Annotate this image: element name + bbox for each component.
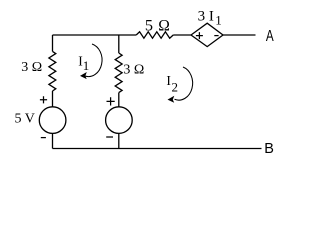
wire middle source to bottom rail <box>118 133 120 148</box>
mesh current I1 arc arrow <box>85 44 102 77</box>
resistor 3Ω middle (vertical zigzag) <box>115 53 122 93</box>
mesh current I2 arc arrow <box>175 67 193 100</box>
resistor 5Ω (horizontal zigzag) <box>136 32 173 38</box>
wire left branch vertical top <box>52 35 54 51</box>
minus sign of middle source <box>106 136 113 138</box>
svg-text:2: 2 <box>172 79 179 94</box>
wire middle resistor to source <box>118 93 120 108</box>
wire bottom rail <box>53 148 262 150</box>
resistor 3Ω left (vertical zigzag) <box>49 51 56 91</box>
wire middle branch vertical top <box>118 35 120 53</box>
minus sign inside diamond <box>214 35 218 37</box>
minus sign of 5V source <box>41 137 46 139</box>
svg-text:A: A <box>266 28 274 45</box>
voltage source middle (circle) <box>106 107 133 134</box>
svg-text:5 V: 5 V <box>15 112 35 127</box>
svg-text:Ω: Ω <box>158 15 170 34</box>
svg-text:3 I: 3 I <box>198 8 214 24</box>
wire 5V source to bottom rail <box>52 133 54 148</box>
wire dependent source to terminal A <box>223 34 256 36</box>
voltage source 5V (circle) <box>39 107 66 134</box>
svg-text:5: 5 <box>145 15 153 34</box>
svg-text:B: B <box>264 141 274 157</box>
plus sign inside diamond <box>196 32 203 39</box>
dependent source 3I1 (diamond) <box>191 23 223 46</box>
wire left resistor to 5V source <box>52 91 54 107</box>
svg-text:3 Ω: 3 Ω <box>21 60 42 75</box>
plus sign of 5V source <box>40 96 47 103</box>
wire top rail left segment <box>53 34 137 36</box>
wire 5Ω to dependent source <box>173 34 191 36</box>
svg-text:1: 1 <box>83 58 90 73</box>
plus sign of middle source <box>107 97 115 105</box>
svg-text:1: 1 <box>215 12 222 27</box>
svg-text:3 Ω: 3 Ω <box>123 63 144 78</box>
